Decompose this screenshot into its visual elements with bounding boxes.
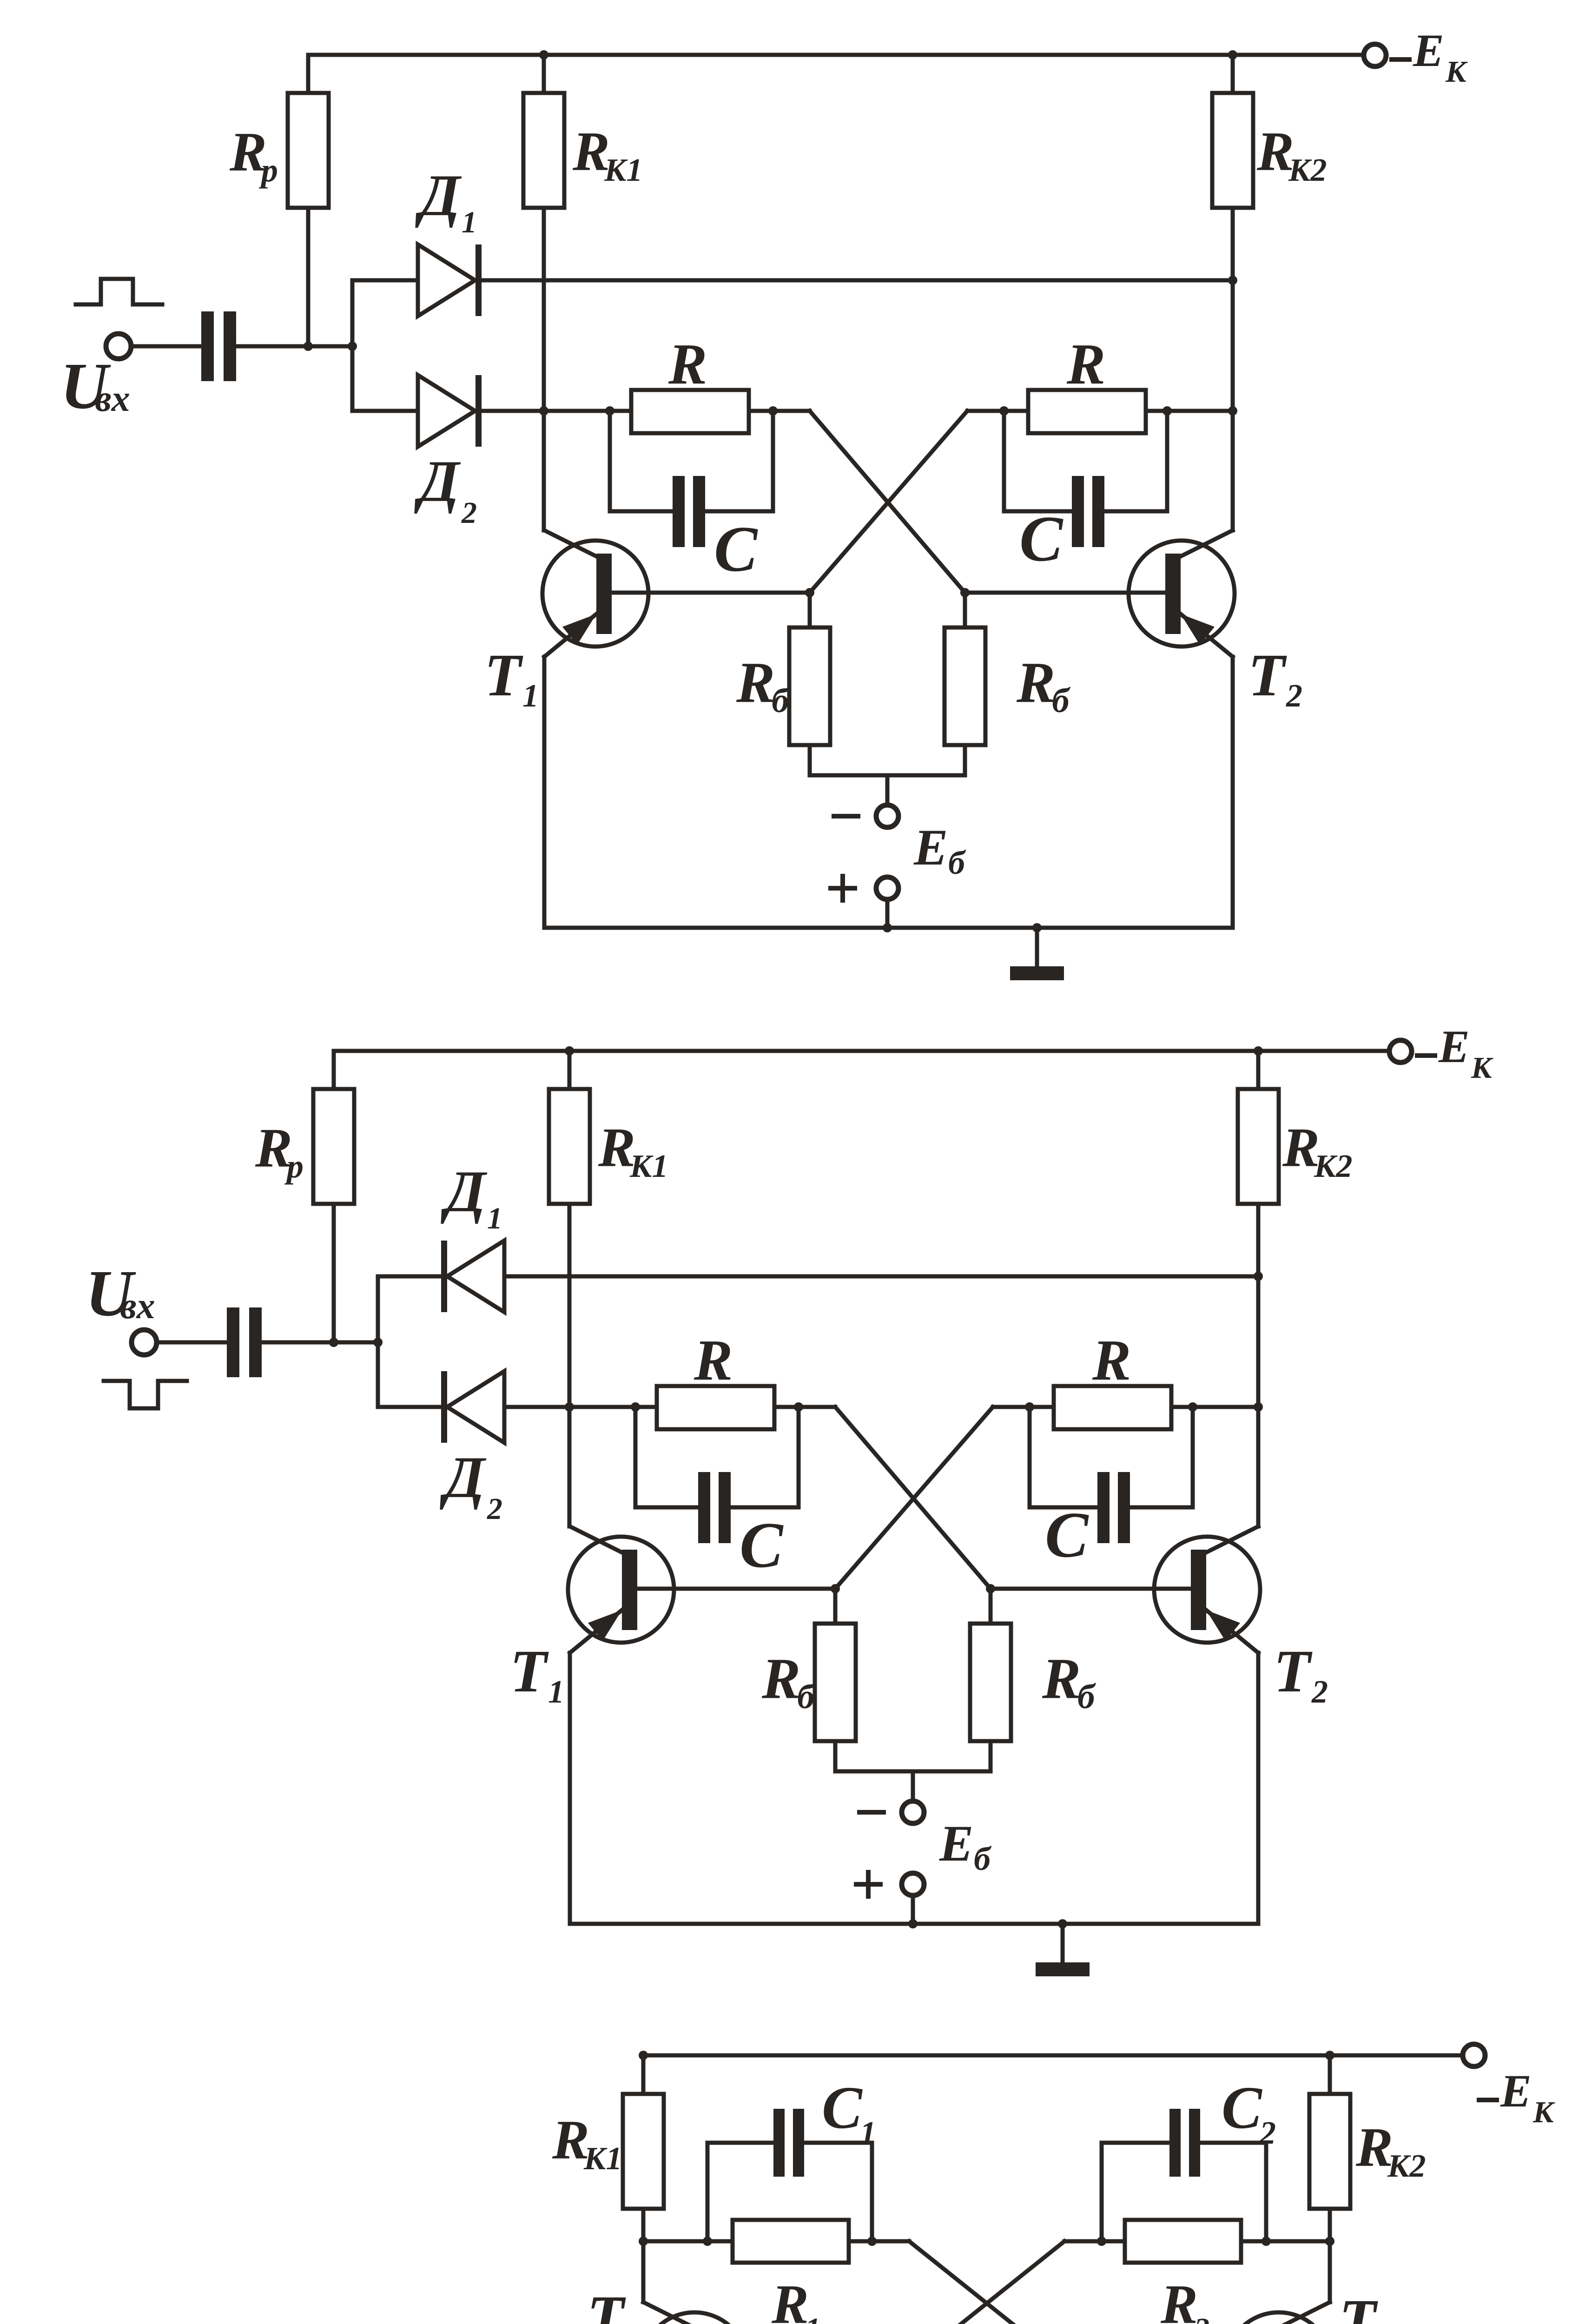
svg-text:R: R <box>771 2273 809 2324</box>
svg-text:С: С <box>1019 503 1063 575</box>
svg-text:С: С <box>1045 1499 1089 1571</box>
svg-text:2: 2 <box>1311 1674 1328 1710</box>
svg-text:R: R <box>1066 332 1105 396</box>
svg-text:К2: К2 <box>1314 1149 1352 1184</box>
svg-text:б: б <box>948 844 966 881</box>
svg-text:2: 2 <box>1286 678 1302 714</box>
svg-text:С: С <box>1222 2074 1262 2141</box>
svg-text:б: б <box>1052 681 1070 720</box>
svg-text:К2: К2 <box>1387 2148 1426 2184</box>
svg-text:1: 1 <box>522 678 539 714</box>
svg-text:р: р <box>258 152 278 189</box>
svg-text:Т: Т <box>1274 1638 1313 1705</box>
svg-text:вх: вх <box>120 1286 155 1327</box>
svg-text:Е: Е <box>1438 1021 1470 1072</box>
svg-text:1: 1 <box>860 2115 876 2151</box>
svg-text:2: 2 <box>1194 2312 1209 2324</box>
svg-text:С: С <box>740 1509 784 1581</box>
svg-text:Е: Е <box>1413 25 1444 76</box>
svg-text:К: К <box>1445 55 1468 89</box>
svg-text:К: К <box>1471 1051 1493 1085</box>
svg-text:К1: К1 <box>583 2141 622 2177</box>
svg-text:1: 1 <box>487 1202 502 1235</box>
svg-text:вх: вх <box>95 378 130 419</box>
svg-text:Е: Е <box>939 1815 973 1872</box>
svg-text:б: б <box>974 1840 992 1877</box>
svg-text:Т: Т <box>510 1638 549 1705</box>
svg-text:2: 2 <box>461 496 477 530</box>
svg-text:1: 1 <box>548 1674 564 1710</box>
svg-text:R: R <box>761 1647 800 1711</box>
svg-text:К1: К1 <box>629 1149 668 1184</box>
svg-text:1: 1 <box>805 2312 820 2324</box>
svg-text:Е: Е <box>913 819 948 876</box>
svg-text:R: R <box>668 332 707 396</box>
svg-text:R: R <box>1042 1647 1081 1711</box>
svg-text:Д: Д <box>415 163 462 228</box>
svg-text:1: 1 <box>462 205 477 239</box>
svg-text:Т: Т <box>484 642 523 709</box>
svg-text:С: С <box>714 513 758 585</box>
svg-text:Д: Д <box>414 449 461 514</box>
svg-text:R: R <box>1016 651 1055 715</box>
svg-text:К: К <box>1532 2095 1555 2129</box>
svg-text:б: б <box>797 1677 816 1716</box>
svg-text:Д: Д <box>441 1159 488 1224</box>
svg-text:б: б <box>1077 1677 1096 1716</box>
svg-text:Е: Е <box>1500 2065 1532 2117</box>
svg-text:2: 2 <box>487 1492 502 1526</box>
svg-text:Т: Т <box>1248 642 1287 709</box>
svg-text:К2: К2 <box>1288 152 1327 188</box>
svg-text:2: 2 <box>1259 2115 1276 2151</box>
svg-text:С: С <box>822 2074 863 2141</box>
svg-text:К1: К1 <box>604 152 642 188</box>
svg-text:R: R <box>1092 1328 1131 1393</box>
svg-text:Т: Т <box>1339 2287 1378 2324</box>
svg-text:Т: Т <box>587 2284 626 2324</box>
svg-text:р: р <box>284 1148 304 1185</box>
svg-text:R: R <box>736 651 775 715</box>
svg-text:1: 1 <box>624 2320 641 2324</box>
svg-text:R: R <box>1160 2273 1198 2324</box>
svg-text:Д: Д <box>440 1445 487 1510</box>
svg-text:R: R <box>694 1328 733 1393</box>
svg-text:б: б <box>772 681 790 720</box>
